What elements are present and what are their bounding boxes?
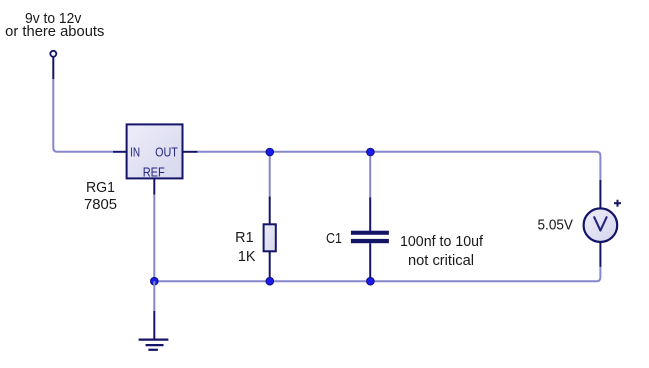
wire: ground branch [153,281,155,311]
svg-text:REF: REF [143,165,165,179]
junction: bottom rail / ground [151,277,159,285]
junction: top rail / R1 branch [266,148,274,156]
junction: bottom rail / R1 branch [266,277,274,285]
label not critical [408,253,474,269]
junction: top rail / C1 branch [367,148,375,156]
label C1 [326,231,342,247]
svg-text:C1: C1 [326,231,342,247]
voltmeter V1 body [584,208,618,242]
svg-text:5.05V: 5.05V [538,218,574,234]
voltage regulator RG1 body [127,124,183,178]
pin stub: voltmeter bottom lead [599,242,601,267]
wire: resistor branch upper segment [269,152,271,197]
wire: bottom rail from ground junction to voltmeter corner [154,267,600,281]
wire: REF down to ground rail [153,195,155,282]
pin stub: ground lead [153,311,155,340]
svg-text:or there abouts: or there abouts [5,24,104,40]
svg-text:R1: R1 [235,230,253,246]
svg-text:IN: IN [130,145,140,159]
wire: top rail from RG1 OUT to voltmeter corner [198,152,601,180]
pin label REF [143,165,165,179]
voltmeter + polarity mark [614,200,621,207]
ground symbol [139,340,169,350]
input terminal (9-12V supply) [50,51,56,79]
capacitor C1 top plate [351,231,389,235]
wire: capacitor branch upper segment [369,152,371,198]
svg-text:not critical: not critical [408,253,474,269]
label 1K [238,249,256,265]
svg-text:OUT: OUT [155,145,178,159]
pin stub: R1 bottom lead [269,252,271,282]
pin stub: R1 top lead [269,197,271,225]
svg-text:100nf to 10uf: 100nf to 10uf [400,234,483,250]
pin stub: RG1 IN pin [113,151,127,153]
label 7805 [84,197,117,213]
label: 9v to 12v [25,11,82,27]
pin stub: C1 bottom lead [369,243,371,281]
pin stub: RG1 REF pin [153,179,155,195]
pin stub: C1 top lead [369,197,371,231]
pin stub: RG1 OUT pin [184,151,198,153]
pin label OUT [155,145,178,159]
svg-text:RG1: RG1 [86,180,115,196]
label 100nf to 10uf [400,234,483,250]
svg-text:7805: 7805 [84,197,117,213]
wire: input terminal down and right to RG1 IN [53,79,113,152]
voltmeter V symbol [594,217,606,230]
capacitor C1 bottom plate [351,239,389,243]
svg-text:1K: 1K [238,249,256,265]
label R1 [235,230,253,246]
junction: bottom rail / C1 branch [367,277,375,285]
label RG1 [86,180,115,196]
label: or there abouts [5,24,104,40]
pin label IN [130,145,140,159]
resistor R1 body [264,224,276,251]
pin stub: voltmeter top lead [599,180,601,208]
label 5.05V [538,218,574,234]
